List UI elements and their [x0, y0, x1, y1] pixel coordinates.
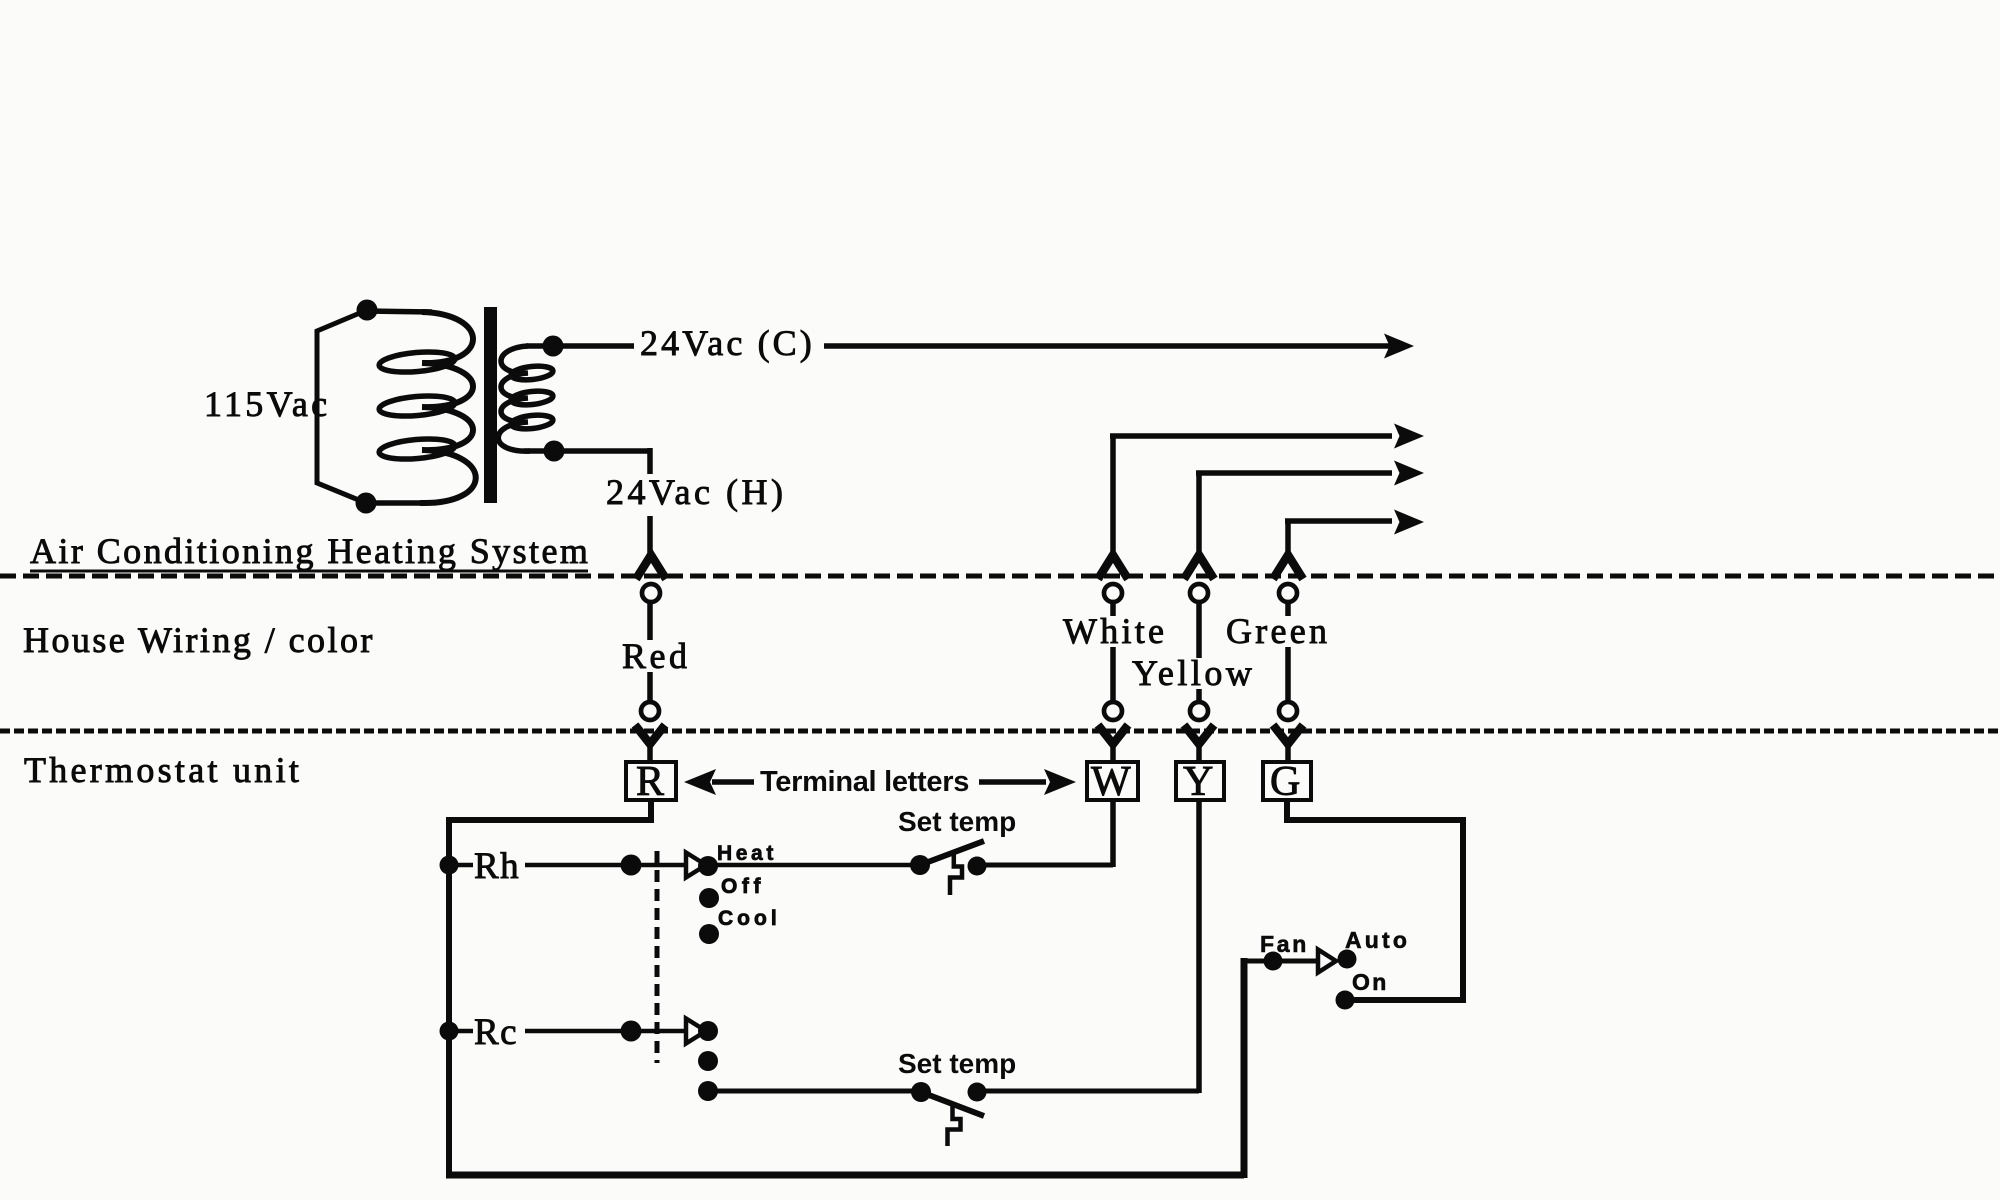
- arrow G output: [1394, 510, 1424, 535]
- wire set temp to terminal W: [977, 800, 1113, 867]
- svg-text:Thermostat unit: Thermostat unit: [24, 750, 302, 790]
- wire 24Vac (C): [553, 343, 1390, 349]
- connector R at thermostat boundary: [635, 702, 665, 763]
- wire Y output run: [1196, 473, 1392, 557]
- svg-text:On: On: [1352, 969, 1389, 995]
- svg-text:Green: Green: [1226, 611, 1330, 651]
- svg-text:G: G: [1270, 759, 1300, 805]
- label Rh: [473, 846, 525, 887]
- junction Rh: [440, 856, 459, 875]
- terminal Y: [1176, 759, 1224, 805]
- label White: [1059, 611, 1169, 651]
- wire R house run: [647, 603, 653, 701]
- wire Rc row: [449, 1029, 686, 1034]
- contact cool 3: [698, 1081, 718, 1101]
- contact Heat: [698, 856, 718, 876]
- contact Off: [699, 888, 719, 908]
- svg-text:Auto: Auto: [1345, 927, 1410, 953]
- annotation arrow to R: [684, 769, 754, 795]
- wire R terminal to thermostat bus: [449, 800, 654, 1178]
- svg-text:Set temp: Set temp: [898, 806, 1016, 837]
- contact On: [1336, 991, 1355, 1010]
- svg-text:24Vac (H): 24Vac (H): [606, 472, 786, 512]
- connector G at system boundary: [1273, 555, 1303, 602]
- svg-text:R: R: [636, 759, 664, 805]
- label Yellow: [1128, 653, 1257, 693]
- switch S2 set temp (cool): [911, 1082, 987, 1146]
- svg-text:House Wiring / color: House Wiring / color: [23, 620, 375, 660]
- terminal G: [1263, 759, 1311, 805]
- svg-text:115Vac: 115Vac: [204, 384, 330, 424]
- switch S1 set temp (heat): [910, 841, 987, 895]
- mode selector gang line: [655, 851, 660, 1063]
- svg-text:Fan: Fan: [1260, 931, 1309, 957]
- label Green: [1222, 611, 1332, 651]
- connector Y at system boundary: [1184, 555, 1214, 602]
- selector wiper heat: [686, 853, 706, 878]
- wire fan feed: [1241, 959, 1318, 964]
- connector R at system boundary: [636, 555, 666, 602]
- terminal R: [626, 759, 676, 805]
- svg-text:Rh: Rh: [474, 846, 520, 887]
- connector W at thermostat boundary: [1098, 702, 1128, 763]
- svg-text:Cool: Cool: [718, 907, 781, 930]
- svg-text:Yellow: Yellow: [1132, 653, 1255, 693]
- wire W house run: [1110, 603, 1116, 701]
- boundary dashed line: house wiring / thermostat: [0, 729, 2000, 734]
- wire set temp to terminal Y: [977, 800, 1199, 1093]
- svg-text:Set temp: Set temp: [898, 1048, 1016, 1079]
- svg-text:Red: Red: [622, 636, 691, 676]
- svg-text:Off: Off: [721, 875, 765, 898]
- wire G output run: [1285, 521, 1392, 557]
- wire Rh row: [449, 863, 686, 868]
- boundary dashed line: system / house wiring: [0, 574, 2000, 579]
- svg-text:White: White: [1063, 611, 1167, 651]
- transformer T1 secondary winding: [498, 336, 564, 462]
- contact Cool: [699, 924, 719, 944]
- junction Rc: [440, 1022, 459, 1041]
- junction dot Rh row: [621, 855, 642, 876]
- label Red: [618, 636, 692, 676]
- wire 24Vac (H): [554, 448, 650, 558]
- connector W at system boundary: [1098, 555, 1128, 602]
- contact Auto: [1338, 950, 1357, 969]
- arrow W output: [1394, 424, 1424, 449]
- transformer T1 core: [484, 307, 497, 503]
- label Rc: [473, 1012, 525, 1053]
- transformer T1 primary winding: [317, 300, 476, 514]
- selector wiper cool: [686, 1019, 706, 1044]
- svg-text:W: W: [1091, 759, 1131, 805]
- label 24Vac (C): [634, 323, 824, 368]
- connector Y at thermostat boundary: [1184, 702, 1214, 763]
- svg-text:24Vac (C): 24Vac (C): [640, 323, 815, 363]
- wire heat contact to set temp switch: [708, 863, 918, 868]
- annotation arrow to W: [979, 769, 1076, 795]
- svg-text:Air Conditioning Heating Syste: Air Conditioning Heating System: [30, 531, 590, 571]
- wire W output run: [1110, 436, 1392, 557]
- svg-text:Terminal letters: Terminal letters: [760, 766, 969, 798]
- contact cool 2: [698, 1051, 718, 1071]
- section label: Air Conditioning Heating System: [30, 531, 590, 571]
- connector G at thermostat boundary: [1273, 702, 1303, 763]
- contact cool 1: [698, 1021, 718, 1041]
- svg-text:Y: Y: [1183, 759, 1213, 805]
- svg-text:Heat: Heat: [717, 842, 777, 865]
- terminal W: [1087, 759, 1138, 805]
- arrow Y output: [1394, 461, 1424, 486]
- wire G house run: [1285, 603, 1291, 701]
- selector wiper fan: [1318, 950, 1336, 973]
- wire Y house run: [1196, 603, 1202, 701]
- junction dot Rc row: [621, 1021, 642, 1042]
- wire cool contact to set temp switch: [708, 1089, 921, 1094]
- svg-text:Rc: Rc: [474, 1012, 518, 1053]
- arrow 24Vac (C) output: [1384, 334, 1414, 359]
- wire thermostat bottom bus: [446, 958, 1244, 1178]
- contact Fan: [1264, 952, 1283, 971]
- label 24Vac (H): [600, 472, 790, 516]
- wire G terminal to fan switch: [1284, 800, 1466, 1000]
